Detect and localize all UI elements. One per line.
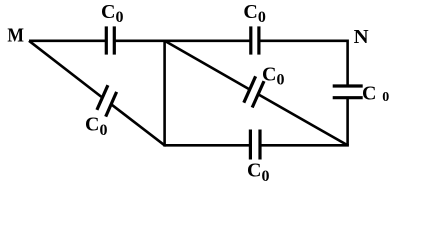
wire right-diagonal capacitor to bottom-right corner <box>258 94 348 145</box>
svg-text:C0: C0 <box>247 160 269 185</box>
capacitor C0 top-middle plates <box>251 26 259 54</box>
wire bottom-right corner to bottom capacitor <box>260 144 349 147</box>
capacitor C0 left-diagonal plates <box>97 85 117 116</box>
capacitor C0 right-diagonal plates <box>244 76 264 107</box>
svg-text:C0: C0 <box>262 63 284 88</box>
wire M to diagonal capacitor <box>29 41 102 98</box>
wire bottom capacitor to bottom-left junction <box>165 144 251 147</box>
wire top junction to right-diagonal capacitor <box>165 41 250 90</box>
svg-text:M: M <box>7 25 24 47</box>
svg-text:C0: C0 <box>85 114 107 139</box>
capacitor C0 right plates <box>333 86 363 98</box>
wire top-middle capacitor to node N corner <box>259 39 348 42</box>
wire M to top-left capacitor <box>29 39 106 42</box>
wire right capacitor down to bottom-right corner <box>346 98 349 146</box>
wire middle vertical <box>163 40 166 147</box>
wire top-left capacitor to top-middle capacitor <box>114 39 251 42</box>
svg-text:C0: C0 <box>101 1 123 26</box>
svg-text:0: 0 <box>382 90 389 105</box>
svg-text:C0: C0 <box>243 1 265 26</box>
svg-text:C: C <box>362 83 376 105</box>
wire diagonal capacitor to bottom-left junction <box>111 104 164 145</box>
svg-text:N: N <box>354 26 370 48</box>
wire N corner down to right capacitor <box>346 40 349 87</box>
capacitor C0 top-left plates <box>106 26 114 54</box>
capacitor C0 bottom plates <box>250 130 260 160</box>
